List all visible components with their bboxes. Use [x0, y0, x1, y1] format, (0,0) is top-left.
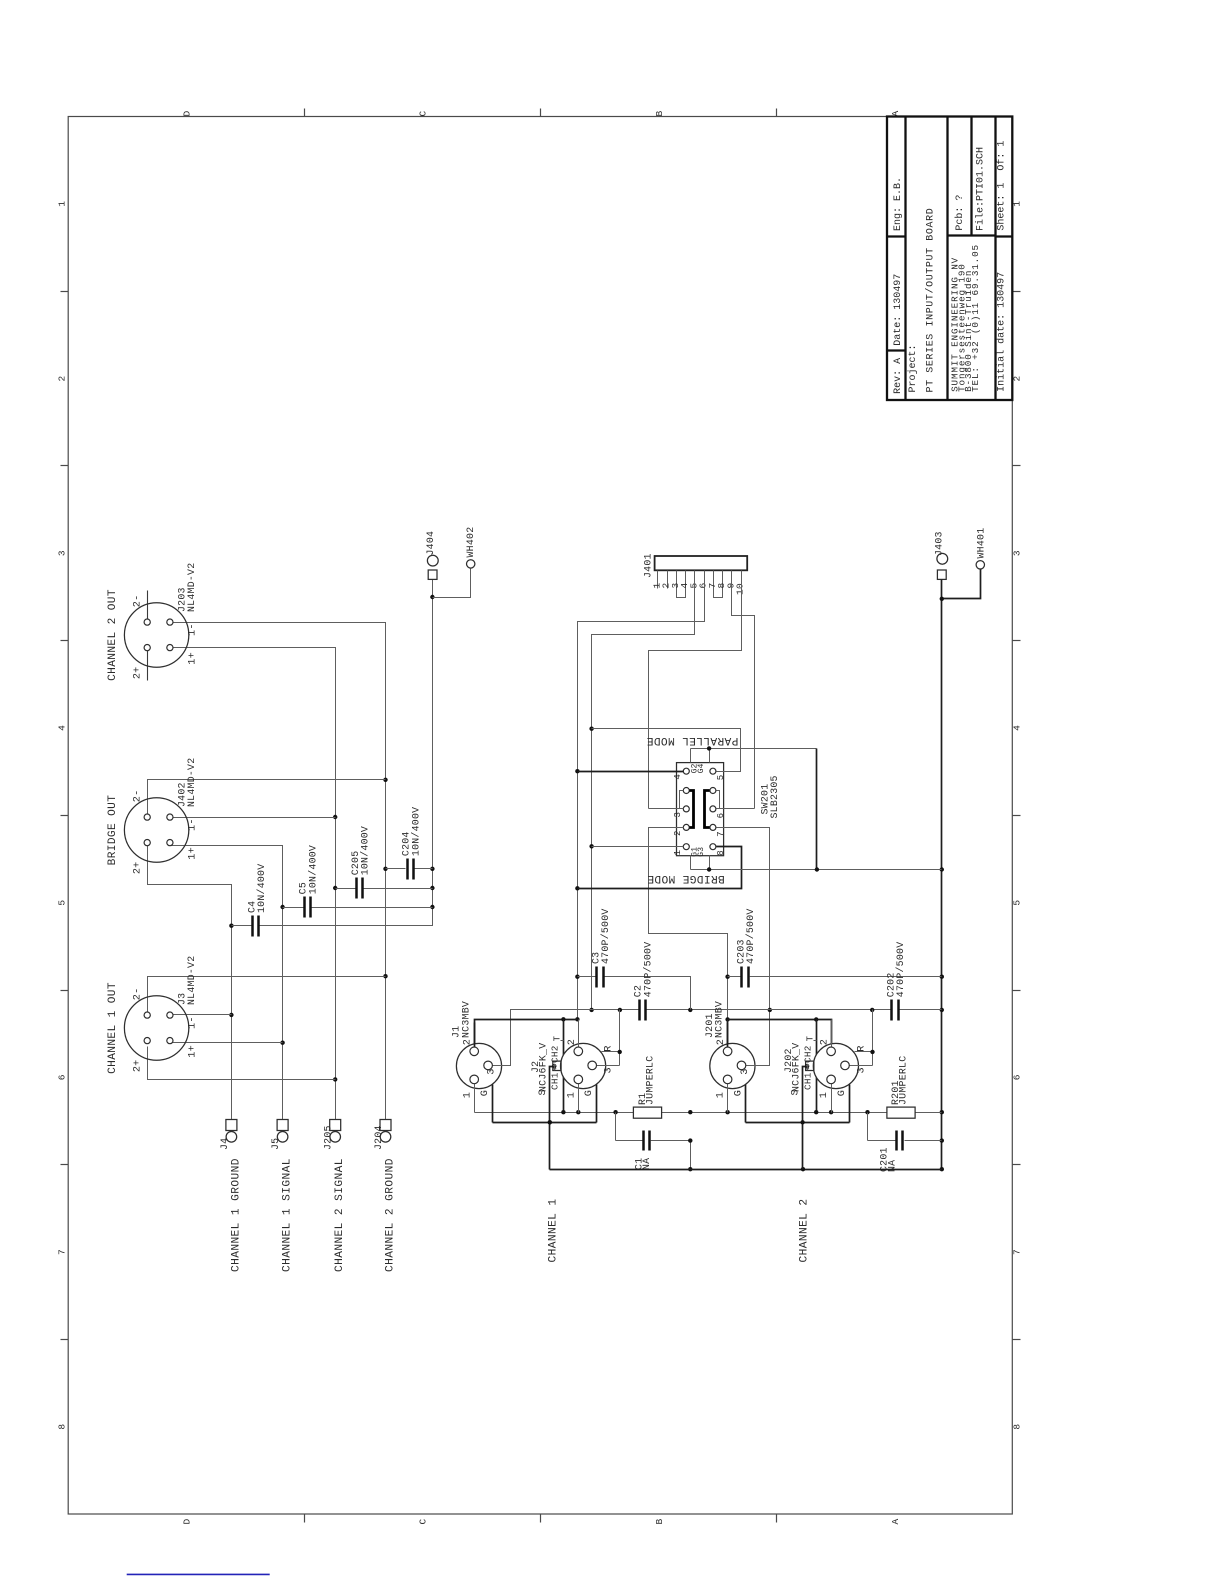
zone ticks bottom edge: [305, 1515, 777, 1523]
capacitor C3 470P/500V: [578, 908, 612, 987]
zone numbers right edge 1-8: [1012, 201, 1023, 1430]
junction J2.1 at pin1 line: [576, 1110, 580, 1114]
svg-text:BRIDGE MODE: BRIDGE MODE: [647, 872, 725, 884]
svg-text:2-: 2-: [132, 595, 143, 608]
J401 pins 3-4 shorting U link: [677, 571, 686, 598]
junction C201 right at rail 941.8: [940, 1138, 944, 1142]
svg-text:7: 7: [1012, 1249, 1023, 1255]
svg-text:1: 1: [819, 1092, 830, 1098]
svg-text:G: G: [480, 1090, 491, 1096]
wire WH402 to J404 rail: [433, 569, 471, 598]
wire J3.2- up and right: [148, 977, 386, 1013]
svg-text:B: B: [654, 1518, 665, 1524]
terminal J204 (CHANNEL 2 GROUND): [373, 1120, 391, 1151]
label BRIDGE MODE: [647, 872, 725, 884]
svg-text:2-: 2-: [132, 790, 143, 803]
svg-text:2: 2: [820, 1039, 831, 1045]
wire tip drop CH1 (under J2): [563, 1020, 565, 1113]
svg-text:CH2: CH2: [550, 1045, 561, 1063]
junction C3 left on rail 577.4: [575, 975, 579, 979]
connector J3 NL4MD-V2 (CHANNEL 1 OUT): [124, 956, 196, 1061]
svg-text:1+: 1+: [187, 847, 198, 860]
svg-text:4: 4: [1012, 725, 1023, 731]
J201 labels: [704, 1001, 725, 1038]
svg-text:CHANNEL 2 SIGNAL: CHANNEL 2 SIGNAL: [334, 1158, 346, 1272]
J3 pin labels: [132, 988, 198, 1073]
J201 pin number labels: [716, 1039, 751, 1098]
junction C4 left at rail 231.4: [229, 924, 233, 928]
junction C205 left at rail 335.2: [333, 886, 337, 890]
junction J3.2- at rail 385.5: [383, 974, 387, 978]
connector J203 unconnected stub pin 2+: [147, 646, 149, 681]
svg-text:3: 3: [856, 1067, 867, 1073]
svg-text:NCJ6FK_V: NCJ6FK_V: [538, 1043, 549, 1092]
svg-text:2+: 2+: [132, 1059, 143, 1072]
svg-text:CHANNEL 1 OUT: CHANNEL 1 OUT: [107, 982, 119, 1074]
wire G rail bridge down: [816, 749, 818, 870]
svg-text:1: 1: [716, 1092, 727, 1098]
J1 labels: [451, 1001, 472, 1038]
svg-text:BRIDGE OUT: BRIDGE OUT: [107, 795, 119, 866]
svg-text:G4: G4: [697, 764, 706, 774]
resistor R201 JUMPERLC: [887, 1056, 915, 1119]
junction C1 right at chassis vertical: [688, 1138, 692, 1142]
wire net J203.1+ / J402.1- / C205 / J3.2+ rail to J205: [170, 648, 336, 1120]
svg-text:Project:: Project:: [907, 344, 919, 392]
wire J401 pin6 to CH1 hot rail: [578, 571, 705, 1020]
svg-text:CH2: CH2: [802, 1045, 813, 1063]
capacitor C4 10N/400V: [232, 864, 268, 937]
wire J402.2- up and right: [148, 780, 386, 815]
J401 pin number labels 1-10: [651, 583, 745, 596]
svg-text:2: 2: [567, 1039, 578, 1045]
svg-text:J205: J205: [323, 1125, 334, 1150]
connector J401 header body: [643, 553, 748, 578]
J201 pin circles: [723, 1047, 746, 1084]
capacitor C5 10N/400V: [283, 845, 433, 918]
junction R201 left tap at pin1 line: [865, 1110, 869, 1114]
svg-text:7: 7: [716, 831, 726, 837]
capacitor C201 NA: [868, 1113, 942, 1173]
wire SW201 G2/G4 stubs to top G rail: [691, 749, 817, 763]
junction SW201.8 branch on rail 577.4: [575, 886, 579, 890]
J202 switch label CH1-CH2: [802, 1045, 813, 1090]
J2 labels: [530, 1043, 549, 1092]
wire net J402.2+ / C4 / J3.1- rail to J4: [148, 844, 232, 1120]
wire J201 pin2 stub: [727, 1020, 729, 1049]
capacitor C1 NA: [616, 1113, 691, 1171]
svg-text:G: G: [733, 1090, 744, 1096]
svg-text:PT SERIES INPUT/OUTPUT BOARD: PT SERIES INPUT/OUTPUT BOARD: [925, 208, 937, 393]
junction G4 stub on top G rail: [707, 746, 711, 750]
wire tip drop CH2 (under J202): [816, 1020, 818, 1113]
svg-text:6: 6: [1012, 1074, 1023, 1080]
wire SW201 pin3 to J401 pin10 drop: [649, 808, 684, 810]
wire J401 pin9 to SW201.6: [732, 571, 755, 809]
J2 pin number labels: [538, 1035, 615, 1098]
svg-text:WH402: WH402: [465, 527, 476, 558]
svg-text:4: 4: [673, 774, 683, 780]
wire pin1 line middle segment: [662, 1112, 887, 1114]
svg-text:D: D: [182, 110, 193, 116]
svg-text:8: 8: [57, 1424, 68, 1430]
junction CH2 sleeve drop at ground line: [801, 1167, 805, 1171]
svg-text:2+: 2+: [132, 666, 143, 679]
J203 pin labels: [132, 595, 198, 680]
J2 sleeve drop junction at G line: [548, 1120, 552, 1124]
svg-text:10N/400V: 10N/400V: [307, 845, 318, 894]
terminal J5 (CHANNEL 1 SIGNAL): [270, 1120, 288, 1151]
label CHANNEL 2 SIGNAL: [334, 1158, 346, 1272]
wire SW201 pin7 down to pin3 line and J201.3: [717, 828, 770, 1066]
junction C3 right drop at pin3 line: [688, 1008, 692, 1012]
wire SW201 pin8 loop to hot rail 577.4: [578, 847, 742, 889]
svg-text:1: 1: [462, 1092, 473, 1098]
svg-text:C: C: [418, 110, 429, 116]
wire J3.2+ down and right: [148, 1047, 336, 1080]
J401 pin stubs 1 and 2: [658, 571, 668, 589]
svg-text:B: B: [654, 110, 665, 116]
junction WH401 at rail 941.8: [940, 597, 944, 601]
wire pin1 line right segment to chassis rail: [916, 1112, 942, 1114]
junction SW201.4 branch on rail 577.4: [575, 769, 579, 773]
svg-text:470P/500V: 470P/500V: [745, 908, 756, 964]
wire J401 pin5 to CH1 cold rail: [592, 571, 695, 1010]
svg-text:470P/500V: 470P/500V: [600, 908, 611, 964]
title block company address: [949, 244, 981, 392]
svg-text:J204: J204: [373, 1125, 384, 1150]
svg-text:J404: J404: [425, 531, 436, 556]
wire net J203.1- / J402.2- / C204 / J3.2- rail to J204: [170, 623, 386, 1120]
junction J3.1+ at rail 282.6: [280, 1041, 284, 1045]
SW201 internal link right common to pin6: [717, 791, 720, 809]
junction CH1 sleeve drop at G line: [548, 1120, 552, 1124]
J202 labels: [783, 1043, 802, 1092]
stray blue mark bottom left: [127, 1573, 270, 1575]
svg-text:NL4MD-V2: NL4MD-V2: [186, 956, 197, 1005]
J2 pin circles: [574, 1047, 597, 1084]
title block outline: [887, 117, 1013, 401]
svg-text:3: 3: [740, 1068, 751, 1074]
svg-text:2+: 2+: [132, 861, 143, 874]
svg-text:File:PTI01.SCH: File:PTI01.SCH: [974, 147, 986, 231]
svg-text:JUMPERLC: JUMPERLC: [897, 1056, 908, 1105]
svg-text:1: 1: [57, 201, 68, 207]
terminal J4 (CHANNEL 1 GROUND): [219, 1120, 237, 1151]
junction G bridge on bottom G rail: [815, 867, 819, 871]
svg-text:J401: J401: [643, 553, 654, 578]
svg-text:1: 1: [566, 1092, 577, 1098]
svg-text:SLB2305: SLB2305: [769, 775, 780, 818]
capacitor C202 470P/500V: [885, 942, 906, 1021]
svg-text:NA: NA: [641, 1158, 652, 1170]
svg-text:Initial date: 130497: Initial date: 130497: [996, 272, 1008, 392]
junction J3.2+ at rail 335.2: [333, 1077, 337, 1081]
svg-text:CH1: CH1: [802, 1072, 813, 1090]
wire pin3 line segment C2 to C202: [647, 1009, 891, 1011]
wire rail from J404/WH402 down to C4: [259, 580, 433, 926]
connector J1 NC3MBV: [456, 1043, 501, 1088]
wire G line CH2 J201-J202: [746, 1122, 850, 1124]
wire pin2 line CH1 (J1.2 to J2.2 and hot rail): [475, 1020, 578, 1049]
wire pin3 line segment CH1 (J1.3 up and right to C2): [489, 1010, 639, 1066]
svg-text:D: D: [182, 1518, 193, 1524]
SW201 pin number labels: [673, 764, 726, 857]
junction C204 right at rail 432.4: [430, 867, 434, 871]
svg-text:3: 3: [487, 1068, 498, 1074]
svg-text:3: 3: [604, 1067, 615, 1073]
svg-text:470P/500V: 470P/500V: [895, 942, 906, 998]
junction rail 577.4 at J1/J2 pin2 line: [575, 1017, 579, 1021]
wire net J402.1+ / C5 / J3.1+ rail to J5: [170, 846, 283, 1120]
svg-text:3: 3: [673, 812, 683, 818]
svg-text:7: 7: [57, 1249, 68, 1255]
svg-text:NC3MBV: NC3MBV: [460, 1001, 471, 1038]
junction C5 right at rail 432.4: [430, 905, 434, 909]
junction R1 left tap at pin1 line: [613, 1110, 617, 1114]
J201 pin stubs: [728, 1023, 765, 1123]
wire C3 right lead down to pin3 line: [605, 977, 691, 1010]
svg-text:CHANNEL 2 GROUND: CHANNEL 2 GROUND: [385, 1158, 397, 1272]
svg-text:TEL: +32 (0)11 69.31.05: TEL: +32 (0)11 69.31.05: [970, 244, 981, 392]
svg-text:10: 10: [735, 583, 746, 595]
J202 pin circles: [827, 1047, 850, 1084]
svg-text:1-: 1-: [187, 818, 198, 831]
junction J202 ring drop at pin3 line: [870, 1008, 874, 1012]
junction C204 left at rail 385.5: [383, 867, 387, 871]
wire SW201 pin4 to hot rail 577.4: [578, 771, 684, 773]
svg-text:NL4MD-V2: NL4MD-V2: [186, 563, 197, 612]
capacitor C204 10N/400V: [386, 807, 433, 880]
title block text Project: [907, 208, 937, 393]
svg-text:2-: 2-: [132, 988, 143, 1001]
zone letters bottom edge D C B A: [182, 1518, 901, 1524]
junction WH402 link at rail 432.4: [430, 595, 434, 599]
label CHANNEL 2 GROUND: [385, 1158, 397, 1272]
connector J402 NL4MD-V2 (BRIDGE OUT): [124, 758, 196, 863]
SW201 internal link left common to pin3: [680, 791, 684, 809]
svg-text:Pcb: ?: Pcb: ?: [954, 195, 966, 231]
J2 pin stubs: [579, 1020, 620, 1123]
junction tip drop CH2 at pin1 line: [814, 1110, 818, 1114]
svg-text:CHANNEL 1 SIGNAL: CHANNEL 1 SIGNAL: [282, 1158, 294, 1272]
title block text Rev: [893, 358, 904, 394]
svg-text:S: S: [791, 1089, 802, 1095]
connector WH402: [465, 527, 476, 568]
svg-text:CHANNEL 2: CHANNEL 2: [799, 1198, 811, 1262]
SW201 pin circles: [683, 768, 716, 850]
junction J402.2- at rail 385.5: [383, 778, 387, 782]
svg-text:1: 1: [673, 850, 683, 856]
title block text Pcb: [954, 195, 966, 231]
svg-text:10N/400V: 10N/400V: [256, 864, 267, 913]
wire J401 pin10 to SW201.3: [649, 571, 742, 809]
J202 sleeve contact and wire to ground: [803, 1061, 814, 1169]
svg-text:10N/400V: 10N/400V: [360, 826, 371, 875]
junction J402.1- at rail 335.2: [333, 815, 337, 819]
junction C203 right at rail 941.8: [940, 975, 944, 979]
svg-text:1-: 1-: [187, 1016, 198, 1029]
zone ticks left edge: [61, 292, 69, 1340]
connector WH401: [976, 528, 987, 569]
svg-text:CHANNEL 2 OUT: CHANNEL 2 OUT: [107, 589, 119, 681]
resistor R1 JUMPERLC: [633, 1056, 661, 1119]
junction SW201.7 drop at pin3 line: [768, 1008, 772, 1012]
svg-text:J5: J5: [270, 1138, 281, 1150]
connector J202 NCJ6FK_V: [813, 1043, 858, 1088]
junction SW201.5 branch on rail 591.6: [589, 727, 593, 731]
capacitor C203 470P/500V: [728, 908, 942, 987]
svg-text:5: 5: [57, 900, 68, 906]
junction tip drop CH1 at pin1 line: [561, 1110, 565, 1114]
svg-text:1+: 1+: [187, 1045, 198, 1058]
svg-text:2: 2: [716, 1039, 727, 1045]
J401 pins 7-8 shorting U link: [714, 571, 723, 598]
label CHANNEL 1 SIGNAL: [282, 1158, 294, 1272]
label CHANNEL 1 GROUND: [230, 1158, 242, 1272]
junction G3 stub on bottom G rail: [707, 867, 711, 871]
J1 pin stubs: [475, 1023, 511, 1123]
junction C202 right at rail 941.8: [940, 1008, 944, 1012]
title block text Sheet: [996, 141, 1008, 231]
J1 pin number labels: [462, 1039, 497, 1098]
connector J203 NL4MD-V2 (CHANNEL 2 OUT): [124, 563, 196, 668]
connector J2 NCJ6FK_V: [561, 1043, 606, 1088]
svg-text:R: R: [856, 1045, 867, 1051]
svg-text:JUMPERLC: JUMPERLC: [644, 1056, 655, 1105]
svg-text:G3: G3: [697, 847, 706, 857]
wire chassis rail J403 down right side: [941, 580, 943, 1170]
svg-text:CHANNEL 1: CHANNEL 1: [548, 1198, 560, 1262]
wire pin1 line CH1-CH2 left segment: [475, 1112, 634, 1114]
connector J404: [425, 531, 438, 580]
connector J203 unconnected stub pin 2-: [147, 591, 149, 626]
junction J202.1 at pin1 line: [829, 1110, 833, 1114]
svg-text:6: 6: [716, 813, 726, 819]
wire WH401 link to J403 rail: [942, 570, 981, 599]
svg-text:8: 8: [1012, 1424, 1023, 1430]
title block text File: [974, 147, 986, 231]
wire pin2 line CH2 (hot rail to J202.2): [728, 1020, 832, 1049]
svg-text:2: 2: [463, 1039, 474, 1045]
J2 ring contact wire: [602, 1010, 620, 1066]
svg-text:CHANNEL 1 GROUND: CHANNEL 1 GROUND: [230, 1158, 242, 1272]
wire ground line bottom: [550, 1169, 942, 1171]
J2 switch label CH1-CH2: [550, 1045, 561, 1090]
svg-text:5: 5: [716, 775, 726, 781]
junction C205 right at rail 432.4: [430, 886, 434, 890]
label BRIDGE OUT: [107, 795, 119, 866]
title block text Eng: [893, 177, 904, 231]
junction C5 left at rail 282.6: [280, 905, 284, 909]
svg-text:PARALLEL MODE: PARALLEL MODE: [646, 734, 738, 746]
zone ticks right edge: [1013, 292, 1021, 1340]
zone numbers left edge 1-8: [57, 201, 68, 1430]
wire pin3 line segment C202 to chassis rail: [900, 1009, 942, 1011]
svg-text:T: T: [805, 1035, 815, 1041]
junction ground line at rail 941.8: [940, 1167, 944, 1171]
junction J2 ring drop at pin3 line: [618, 1008, 622, 1012]
svg-text:T: T: [553, 1035, 563, 1041]
J202 pin stubs: [832, 1020, 873, 1123]
label CHANNEL 2 OUT: [107, 589, 119, 681]
junction rail 591.6 at pin3 line: [589, 1008, 593, 1012]
J2 sleeve contact and wire to ground: [550, 1061, 562, 1169]
svg-text:J4: J4: [219, 1138, 230, 1150]
svg-text:6: 6: [57, 1074, 68, 1080]
junction chassis vertical at pin1 line: [688, 1110, 692, 1114]
sheet border frame: [68, 117, 1012, 1515]
wire chassis vertical C3/C2/R1/C1 common: [690, 1141, 692, 1170]
wire SW201 pin2 to CH2 hot rail: [649, 828, 728, 1020]
zone letters top edge D C B A: [182, 110, 901, 116]
svg-text:NC3MBV: NC3MBV: [714, 1001, 725, 1038]
junction J201.1 at pin1 line: [725, 1110, 729, 1114]
wire SW201 pin1 to rail 591.6: [592, 846, 684, 848]
wire SW201 pin6 to J401 pin9 drop: [717, 808, 755, 810]
connector J201 NC3MBV: [710, 1043, 755, 1088]
SW201 slider contact left: [690, 791, 694, 828]
svg-text:3: 3: [1012, 550, 1023, 556]
svg-text:5: 5: [1012, 900, 1023, 906]
svg-text:2: 2: [673, 830, 683, 836]
svg-text:1+: 1+: [187, 652, 198, 665]
wire G line CH1 J1-J2: [493, 1122, 597, 1124]
svg-text:WH401: WH401: [976, 528, 987, 559]
J202 sleeve drop junction at G line: [800, 1120, 804, 1124]
svg-text:J403: J403: [934, 531, 945, 556]
svg-text:10N/400V: 10N/400V: [410, 807, 421, 856]
J202 ring contact wire: [855, 1010, 873, 1066]
junction SW201.1 branch on rail 591.6: [589, 844, 593, 848]
junction J3.1- at rail 231.4: [229, 1013, 233, 1017]
svg-text:Rev: A: Rev: A: [893, 358, 904, 394]
label CHANNEL 2: [799, 1198, 811, 1262]
svg-text:A: A: [890, 1518, 901, 1524]
svg-text:C: C: [418, 1518, 429, 1524]
J1 pin circles: [470, 1047, 493, 1084]
svg-text:2: 2: [57, 375, 68, 381]
junction R201 right at rail 941.8: [940, 1110, 944, 1114]
junction tip drop CH1 at pin2 line: [561, 1017, 565, 1021]
junction chassis vertical at ground line: [688, 1167, 692, 1171]
junction G rail at rail 941.8: [940, 867, 944, 871]
title block text Date: [893, 274, 904, 346]
terminal J205 (CHANNEL 2 SIGNAL): [323, 1120, 341, 1151]
svg-text:S: S: [538, 1089, 549, 1095]
J2 tip contact stub: [561, 1040, 564, 1042]
capacitor C2 470P/500V: [633, 942, 654, 1021]
J202 pin number labels: [791, 1035, 868, 1098]
svg-text:4: 4: [57, 725, 68, 731]
svg-text:1-: 1-: [187, 623, 198, 636]
svg-text:8: 8: [716, 850, 726, 856]
title block text Initial date: [996, 272, 1008, 392]
wire SW201 pin5 up and left to rail 591.6: [592, 729, 741, 772]
svg-text:G: G: [584, 1090, 595, 1096]
svg-text:Date: 130497: Date: 130497: [893, 274, 904, 346]
wire J3.1+ right: [170, 1042, 283, 1044]
svg-text:470P/500V: 470P/500V: [642, 942, 653, 998]
junction C203 left on CH2 hot rail: [725, 975, 729, 979]
wire J3.1- right: [170, 1014, 232, 1016]
junction tip drop CH2 at pin2 line: [814, 1017, 818, 1021]
wire J402.1- right: [170, 817, 336, 819]
SW201 slider contact right: [705, 791, 710, 828]
label CHANNEL 1 OUT: [107, 982, 119, 1074]
svg-text:3: 3: [57, 550, 68, 556]
svg-text:CH1: CH1: [550, 1072, 561, 1090]
